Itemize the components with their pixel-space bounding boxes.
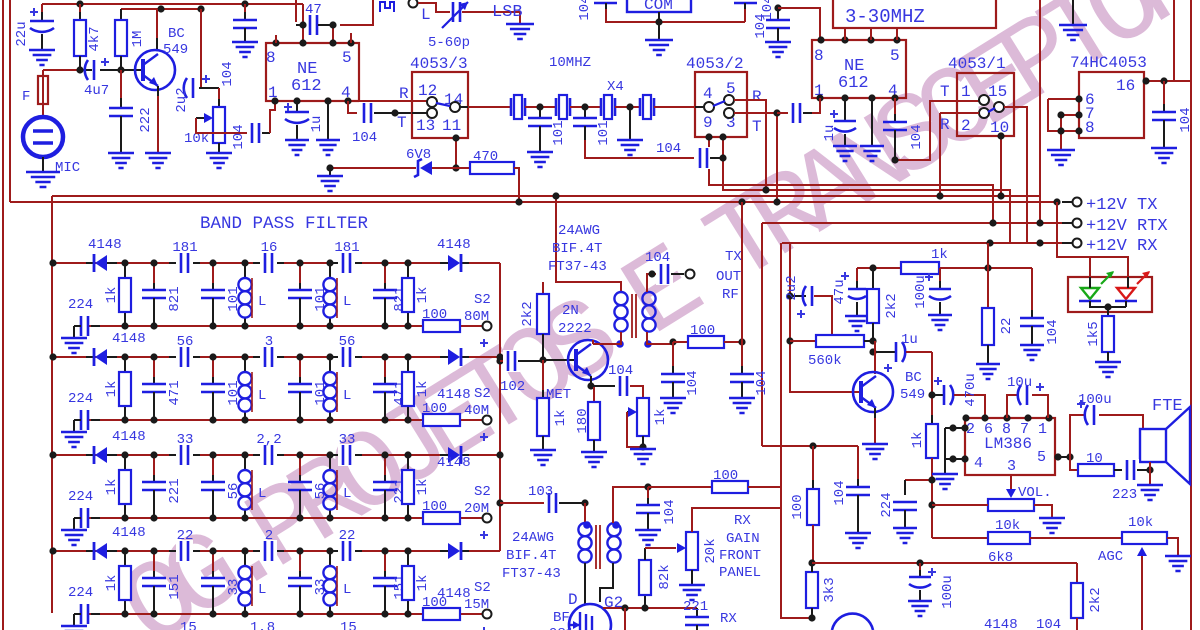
node <box>719 154 726 161</box>
svg-text:104: 104 <box>909 124 925 149</box>
resistor 100 15M <box>423 608 460 620</box>
svg-text:100u: 100u <box>1078 392 1112 408</box>
svg-text:1k: 1k <box>104 575 120 592</box>
svg-text:4148: 4148 <box>437 237 471 253</box>
op-amp COM <box>627 0 691 12</box>
svg-text:104: 104 <box>1045 319 1061 344</box>
svg-text:2: 2 <box>265 528 273 544</box>
wire <box>812 562 1077 564</box>
node <box>296 353 303 360</box>
wire <box>895 101 984 160</box>
resistor 100 <box>648 486 712 488</box>
svg-text:100: 100 <box>713 468 738 484</box>
ground <box>630 449 656 464</box>
ground <box>645 40 673 55</box>
ground <box>1059 25 1087 40</box>
wire <box>332 25 334 43</box>
svg-text:8: 8 <box>266 49 276 67</box>
svg-text:5: 5 <box>342 49 352 67</box>
LED red <box>1117 288 1135 299</box>
ground <box>530 450 556 465</box>
wire <box>932 537 988 539</box>
svg-text:2: 2 <box>961 117 971 135</box>
node <box>404 451 411 458</box>
ground <box>908 601 932 616</box>
svg-text:MIC: MIC <box>55 160 80 176</box>
wire <box>590 376 592 386</box>
wire <box>1070 457 1078 470</box>
ground <box>860 146 884 161</box>
svg-text:15: 15 <box>180 620 197 630</box>
wire <box>359 100 432 102</box>
svg-text:549: 549 <box>900 387 925 403</box>
resistor 10 <box>1078 464 1114 476</box>
ground <box>61 338 87 353</box>
wire <box>10 201 1057 203</box>
node <box>452 134 459 141</box>
capacitor 2,2 series 20M <box>253 454 284 456</box>
wire <box>1030 537 1122 539</box>
capacitor 151 shunt 15M <box>384 551 386 578</box>
capacitor 22u <box>41 4 43 21</box>
capacitor 224 40M <box>91 419 100 421</box>
resistor 1k 80M output <box>407 263 409 278</box>
capacitor 16 series 80M <box>253 262 284 264</box>
wire <box>455 138 457 168</box>
wire <box>556 196 621 292</box>
resistor 1k 20M input <box>124 455 126 470</box>
node <box>150 451 157 458</box>
capacitor 104 TX out <box>656 263 673 285</box>
ground <box>108 153 134 168</box>
wire <box>1034 505 1052 518</box>
svg-text:LSB: LSB <box>492 3 523 22</box>
diode 4148 input 40M <box>86 356 93 358</box>
capacitor 221 RX ANT <box>696 608 698 616</box>
resistor 100 40M <box>423 414 460 426</box>
svg-text:1k: 1k <box>104 479 120 496</box>
svg-text:D: D <box>568 591 578 609</box>
wire <box>1149 462 1151 485</box>
svg-text:223: 223 <box>1112 487 1137 503</box>
node <box>241 259 248 266</box>
capacitor 104 <box>857 446 859 487</box>
svg-text:BIF.4T: BIF.4T <box>552 241 602 257</box>
capacitor 100u <box>919 563 921 577</box>
wire <box>874 408 876 444</box>
svg-text:4053/1: 4053/1 <box>948 55 1006 73</box>
node <box>496 357 503 364</box>
node <box>669 338 676 345</box>
node <box>916 559 923 566</box>
crystal X4 <box>639 98 642 116</box>
wire <box>350 33 352 43</box>
capacitor 33 shunt 15M <box>212 551 214 578</box>
resistor 100 80M <box>423 320 460 332</box>
node <box>496 353 503 360</box>
svg-text:2222: 2222 <box>558 321 592 337</box>
resistor 1k5 <box>1107 307 1109 316</box>
svg-text:BC: BC <box>905 370 922 386</box>
node <box>381 547 388 554</box>
wire <box>52 454 440 456</box>
wire <box>52 356 440 358</box>
svg-text:1k: 1k <box>104 381 120 398</box>
node <box>296 259 303 266</box>
ground <box>1165 556 1191 571</box>
svg-text:56: 56 <box>339 334 356 350</box>
potentiometer 10k VOL <box>988 499 1034 511</box>
resistor 22 <box>987 243 989 308</box>
wire <box>1141 556 1143 630</box>
wire <box>857 267 1032 269</box>
svg-text:22: 22 <box>339 528 356 544</box>
wire <box>1089 257 1091 277</box>
capacitor 224 <box>905 479 932 481</box>
svg-text:100: 100 <box>790 494 806 519</box>
ground <box>679 585 705 600</box>
svg-text:T: T <box>752 118 762 136</box>
capacitor 104 supply bypass <box>241 0 248 7</box>
wire <box>605 3 607 9</box>
svg-text:4: 4 <box>974 455 983 472</box>
wire <box>1190 0 1192 630</box>
svg-text:16: 16 <box>1116 77 1135 95</box>
svg-text:5-60p: 5-60p <box>428 35 470 51</box>
node <box>49 547 56 554</box>
svg-text:74HC4053: 74HC4053 <box>1070 54 1147 72</box>
svg-text:4148: 4148 <box>112 429 146 445</box>
svg-text:+12V RX: +12V RX <box>1086 237 1157 256</box>
svg-text:L: L <box>258 294 266 310</box>
svg-text:BIF.4T: BIF.4T <box>506 548 556 564</box>
wire <box>251 470 253 510</box>
unknown part <box>380 2 394 12</box>
svg-text:33: 33 <box>339 432 356 448</box>
wire <box>1144 80 1190 82</box>
wire <box>940 112 979 114</box>
svg-text:1k: 1k <box>415 479 431 496</box>
capacitor 47 <box>305 14 322 36</box>
svg-text:S2: S2 <box>474 580 491 596</box>
wire <box>1057 202 1128 277</box>
resistor 1k 80M input <box>124 263 126 278</box>
node <box>121 353 128 360</box>
node L terminal <box>409 0 418 8</box>
potentiometer 10k <box>218 88 220 107</box>
wire <box>1125 301 1127 307</box>
svg-text:104: 104 <box>1178 107 1194 132</box>
svg-text:2k2: 2k2 <box>1088 587 1104 612</box>
capacitor 104 <box>1163 81 1165 112</box>
node <box>391 109 398 116</box>
ground <box>660 398 686 413</box>
crystal X1 <box>510 98 513 116</box>
capacitor 224 15M <box>91 613 100 615</box>
capacitor 221 shunt 20M <box>153 455 155 482</box>
switch 4053/1 <box>957 73 1014 136</box>
svg-text:4148: 4148 <box>437 455 471 471</box>
ground <box>845 533 871 548</box>
resistor 100 <box>812 446 814 489</box>
node <box>381 353 388 360</box>
capacitor 470u <box>932 394 944 396</box>
svg-text:1u: 1u <box>901 332 918 348</box>
node <box>496 499 503 506</box>
node <box>326 451 333 458</box>
ground <box>206 153 232 168</box>
ground <box>506 24 534 39</box>
node <box>809 442 816 449</box>
svg-text:3k3: 3k3 <box>822 577 838 602</box>
wire <box>615 106 640 108</box>
svg-text:L: L <box>258 582 266 598</box>
svg-text:100: 100 <box>422 499 447 515</box>
wire <box>584 503 586 523</box>
svg-text:RX: RX <box>734 513 751 529</box>
svg-text:1k: 1k <box>415 575 431 592</box>
wire <box>1053 198 1060 205</box>
wire <box>603 607 697 609</box>
transistor Q5 <box>832 614 873 630</box>
wire <box>52 550 440 552</box>
node <box>404 547 411 554</box>
svg-text:BC: BC <box>168 26 185 42</box>
node <box>150 259 157 266</box>
svg-text:612: 612 <box>838 74 869 93</box>
svg-text:100: 100 <box>422 595 447 611</box>
capacitor 471 shunt 40M <box>153 357 155 384</box>
capacitor 221 shunt 20M <box>384 455 386 482</box>
svg-text:1k5: 1k5 <box>1086 321 1102 346</box>
node <box>1075 95 1082 102</box>
capacitor 1u <box>844 98 846 121</box>
LED indicator box <box>1068 277 1152 312</box>
svg-text:4148: 4148 <box>112 331 146 347</box>
capacitor 33 series 20M <box>331 454 362 456</box>
capacitor 104 <box>594 2 617 5</box>
wire <box>270 101 275 133</box>
svg-text:2,2: 2,2 <box>256 432 281 448</box>
wire <box>1048 98 1079 100</box>
capacitor 104 shunt <box>672 342 674 374</box>
svg-text:+12V RTX: +12V RTX <box>1086 217 1168 236</box>
potentiometer 10k AGC <box>1122 532 1167 544</box>
resistor 100 20M <box>423 512 460 524</box>
wire <box>647 274 658 292</box>
svg-text:T: T <box>397 114 407 132</box>
node <box>299 21 306 28</box>
inductor L 20M <box>244 455 246 470</box>
svg-text:3-30MHZ: 3-30MHZ <box>845 6 925 28</box>
inductor L 20M <box>329 455 331 470</box>
svg-text:L: L <box>343 582 351 598</box>
svg-text:33: 33 <box>177 432 194 448</box>
node <box>869 264 876 271</box>
capacitor 22 series 15M <box>169 550 200 552</box>
diode 6V8 zener <box>420 161 432 175</box>
svg-text:PANEL: PANEL <box>719 565 761 581</box>
capacitor 104 <box>894 98 896 122</box>
svg-text:S2: S2 <box>474 386 491 402</box>
wire <box>1062 222 1072 224</box>
diode 4148 input 15M <box>86 550 93 552</box>
resistor 1k <box>901 262 939 274</box>
svg-text:104: 104 <box>608 363 633 379</box>
svg-text:222: 222 <box>138 107 154 132</box>
svg-text:104: 104 <box>352 130 377 146</box>
capacitor 103 <box>500 502 546 504</box>
capacitor 56 shunt 20M <box>212 455 214 482</box>
node <box>209 353 216 360</box>
svg-text:224: 224 <box>68 585 93 601</box>
svg-text:10k: 10k <box>1128 515 1153 531</box>
resistor 100 <box>673 341 688 343</box>
switch 4053/2 <box>695 72 747 137</box>
svg-text:13: 13 <box>416 117 435 135</box>
diode 4148 input 80M <box>86 262 93 264</box>
svg-text:+12V TX: +12V TX <box>1086 196 1157 215</box>
op-amp U3 74HC4053 <box>1079 72 1144 138</box>
crystal X3 <box>600 98 603 116</box>
capacitor 101 shunt 80M <box>299 263 301 290</box>
wire <box>585 140 694 158</box>
wire <box>647 332 673 344</box>
svg-text:1,8: 1,8 <box>250 620 275 630</box>
diode 4148 output 40M <box>440 356 448 358</box>
wire <box>348 101 357 113</box>
wire <box>1089 277 1091 288</box>
svg-text:L: L <box>258 388 266 404</box>
wire <box>42 3 303 5</box>
node <box>326 353 333 360</box>
svg-text:224: 224 <box>68 297 93 313</box>
svg-text:2k2: 2k2 <box>884 293 900 318</box>
wire <box>412 112 427 114</box>
inductor L 40M <box>329 357 331 372</box>
svg-text:1k: 1k <box>104 287 120 304</box>
node +12V TX <box>1073 198 1082 207</box>
svg-text:10MHZ: 10MHZ <box>549 55 591 71</box>
wire <box>691 570 693 585</box>
svg-text:6V8: 6V8 <box>406 147 431 163</box>
svg-text:80M: 80M <box>464 309 489 325</box>
svg-text:2u2: 2u2 <box>784 275 800 300</box>
svg-text:104: 104 <box>231 124 247 149</box>
capacitor 33 shunt 15M <box>299 551 301 578</box>
capacitor 33 series 20M <box>169 454 200 456</box>
node <box>150 547 157 554</box>
capacitor 101 shunt 40M <box>212 357 214 384</box>
ground <box>845 316 869 331</box>
op-amp U4 LM386 <box>965 418 1055 475</box>
ground <box>729 398 755 413</box>
svg-text:22u: 22u <box>14 21 30 46</box>
svg-text:L: L <box>343 486 351 502</box>
inductor L 80M <box>329 263 331 278</box>
capacitor 104 <box>247 122 264 144</box>
capacitor 4u7 <box>86 69 92 71</box>
resistor 82k <box>644 595 646 608</box>
wire <box>121 8 201 10</box>
wire <box>790 243 861 392</box>
fuse F <box>42 70 44 118</box>
capacitor 222 <box>120 70 122 108</box>
svg-text:1k: 1k <box>415 381 431 398</box>
node band filter input bus <box>51 196 53 613</box>
resistor 470 <box>432 167 470 169</box>
node <box>949 424 956 431</box>
capacitor 2u2 <box>790 295 806 297</box>
svg-text:1: 1 <box>1038 421 1047 438</box>
wire <box>542 282 544 294</box>
wire <box>896 27 898 40</box>
svg-text:101: 101 <box>551 120 567 145</box>
wire <box>570 106 601 108</box>
wire <box>330 167 416 169</box>
svg-text:100u: 100u <box>940 575 956 609</box>
ground <box>581 452 607 467</box>
svg-text:11: 11 <box>442 117 461 135</box>
node <box>404 259 411 266</box>
wire <box>695 106 703 108</box>
svg-text:FRONT: FRONT <box>719 548 761 564</box>
node +12V RX <box>1073 239 1082 248</box>
wire <box>1072 0 1074 25</box>
svg-text:104: 104 <box>754 370 770 395</box>
svg-text:470: 470 <box>473 149 498 165</box>
svg-text:22: 22 <box>999 318 1015 335</box>
wire <box>340 0 373 25</box>
wire <box>336 566 338 606</box>
ground <box>232 42 258 57</box>
ground <box>833 146 857 161</box>
wire <box>871 98 873 146</box>
node <box>1104 303 1111 310</box>
svg-text:4: 4 <box>703 85 713 103</box>
svg-text:8: 8 <box>1085 119 1095 137</box>
node S2 15M <box>483 610 492 619</box>
svg-text:T: T <box>940 83 950 101</box>
wire <box>1055 456 1070 458</box>
capacitor 104 <box>695 147 712 169</box>
capacitor 47u <box>856 268 858 289</box>
wire <box>844 28 846 40</box>
node <box>241 547 248 554</box>
wire <box>744 9 746 22</box>
switch 4053/3 <box>412 72 468 138</box>
capacitor 151 shunt 15M <box>153 551 155 578</box>
wire <box>157 86 159 153</box>
wire <box>514 168 519 202</box>
diode 4148 input 20M <box>86 454 93 456</box>
resistor 180 <box>591 386 594 402</box>
svg-text:104: 104 <box>832 480 848 505</box>
ground <box>635 530 661 545</box>
wire <box>778 8 820 40</box>
inductor L 40M <box>244 357 246 372</box>
wire <box>723 137 1010 243</box>
wire <box>629 107 631 140</box>
svg-text:180: 180 <box>575 408 591 433</box>
svg-text:TX: TX <box>725 249 742 265</box>
wire <box>761 223 763 446</box>
capacitor 101 shunt 80M <box>212 263 214 290</box>
svg-text:104: 104 <box>662 499 678 524</box>
svg-text:181: 181 <box>172 240 197 256</box>
svg-text:5: 5 <box>1037 449 1046 466</box>
diode 4148 output 80M <box>440 262 448 264</box>
